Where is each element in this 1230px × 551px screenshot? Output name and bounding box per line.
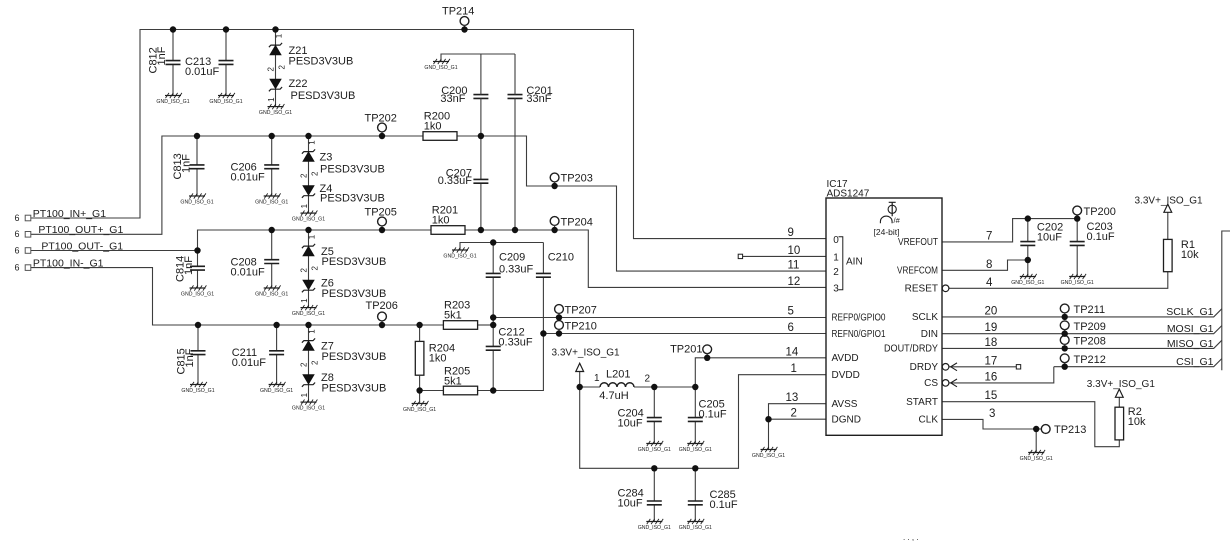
svg-text:PESD3V3UB: PESD3V3UB: [320, 193, 385, 205]
capacitor C284: [618, 488, 662, 510]
svg-text:DIN: DIN: [921, 329, 938, 340]
svg-text:7: 7: [986, 230, 992, 242]
capacitor C202: [1020, 222, 1063, 246]
svg-text:GND_ISO_G1: GND_ISO_G1: [181, 388, 214, 394]
svg-text:GND_ISO_G1: GND_ISO_G1: [679, 447, 712, 453]
svg-text:GND_ISO_G1: GND_ISO_G1: [181, 291, 214, 297]
connector PT100_OUT+_G1: [15, 224, 124, 239]
svg-text:PESD3V3UB: PESD3V3UB: [322, 351, 387, 363]
wire 3.3V rail down to DVDD pin 1: [580, 375, 826, 469]
svg-text:. . , .: . . , .: [903, 533, 919, 542]
test point TP209: [1060, 321, 1106, 334]
svg-text:GND_ISO_G1: GND_ISO_G1: [255, 291, 288, 297]
wire C209/C212 column: [492, 243, 494, 391]
svg-text:SCLK: SCLK: [912, 312, 938, 323]
svg-text:1: 1: [267, 97, 276, 102]
svg-text:AVSS: AVSS: [832, 399, 858, 410]
svg-text:TP201: TP201: [670, 344, 702, 356]
CS bubble: [942, 380, 949, 387]
capacitor C212: [486, 327, 533, 351]
svg-text:GND_ISO_G1: GND_ISO_G1: [638, 525, 671, 531]
resistor R204: [415, 325, 455, 391]
svg-text:Z22: Z22: [289, 78, 308, 90]
svg-text:GND_ISO_G1: GND_ISO_G1: [260, 388, 293, 394]
test point TP214: [442, 6, 474, 30]
svg-text:MOSI_G1: MOSI_G1: [1167, 323, 1214, 335]
wire bus at right edge: [1222, 231, 1230, 370]
svg-text:REFN0/GPIO1: REFN0/GPIO1: [832, 329, 886, 340]
svg-text:CS: CS: [924, 378, 938, 389]
svg-text:GND_ISO_G1: GND_ISO_G1: [403, 407, 436, 413]
svg-text:START: START: [906, 397, 938, 408]
svg-text:4: 4: [986, 277, 993, 289]
svg-text:10uF: 10uF: [618, 417, 643, 429]
connector PT100_IN-_G1: [15, 257, 104, 272]
resistor R200: [423, 111, 457, 141]
svg-text:2: 2: [311, 266, 320, 271]
ground under C213: [209, 93, 242, 105]
svg-text:16: 16: [985, 371, 998, 383]
svg-text:18: 18: [985, 337, 998, 349]
svg-text:1: 1: [833, 252, 839, 263]
wire SCLK pin 20: [942, 309, 1222, 317]
svg-text:3.3V+_ISO_G1: 3.3V+_ISO_G1: [552, 348, 621, 359]
ground under C211: [260, 382, 293, 394]
pin 10 stub square: [738, 254, 742, 258]
wire ground link above C200/C201: [441, 54, 515, 62]
RESET bubble: [942, 285, 949, 292]
svg-text:TP208: TP208: [1074, 336, 1106, 348]
wire L201 net: [580, 372, 696, 388]
ground under C202: [1011, 274, 1044, 286]
svg-text:0.01uF: 0.01uF: [185, 66, 220, 78]
capacitor C209: [486, 252, 534, 278]
wire C203 column: [1076, 219, 1078, 277]
wire VREFOUT pin 7 to C202/C203/TP200: [942, 219, 1077, 242]
ground under C813: [180, 193, 213, 205]
svg-text:2: 2: [791, 408, 797, 420]
svg-text:GND_ISO_G1: GND_ISO_G1: [156, 99, 189, 105]
svg-text:0.33uF: 0.33uF: [499, 264, 534, 276]
svg-text:1k0: 1k0: [424, 120, 442, 132]
capacitor C210: [536, 252, 574, 278]
ground under C206: [255, 193, 288, 205]
svg-text:1: 1: [308, 329, 317, 334]
svg-text:TP207: TP207: [565, 305, 597, 317]
svg-text:PESD3V3UB: PESD3V3UB: [322, 256, 387, 268]
wire START pin 15 to R2: [942, 397, 1119, 446]
wire CLK pin 3 to TP213: [942, 419, 1042, 452]
svg-text:1: 1: [594, 373, 600, 384]
power symbol 3.3V+ at R1: [1135, 195, 1204, 212]
svg-text:AIN: AIN: [846, 257, 863, 268]
wire net PT100_IN- / row4 to R203: [31, 268, 443, 325]
svg-text:20: 20: [985, 305, 998, 317]
resistor R1: [1164, 239, 1200, 272]
svg-text:GND_ISO_G1: GND_ISO_G1: [443, 253, 476, 259]
capacitor C200: [440, 54, 488, 136]
wire DOUT/DRDY pin 18 (MISO): [942, 340, 1222, 348]
op-amp/ADC IC17 ADS1247 body: [826, 179, 942, 436]
svg-text:0.33uF: 0.33uF: [438, 175, 473, 187]
svg-text:TP212: TP212: [1074, 354, 1106, 366]
wire CSI net: [1054, 359, 1222, 367]
svg-text:SCLK_G1: SCLK_G1: [1166, 306, 1213, 318]
svg-text:/#: /#: [894, 216, 901, 225]
svg-text:3.3V+_ISO_G1: 3.3V+_ISO_G1: [1087, 379, 1156, 390]
capacitor C815: [176, 325, 206, 385]
svg-text:2: 2: [833, 267, 839, 278]
ground under Z4: [292, 211, 325, 223]
svg-text:0: 0: [833, 235, 839, 246]
svg-text:5k1: 5k1: [444, 309, 462, 321]
svg-text:0.01uF: 0.01uF: [231, 171, 266, 183]
svg-text:TP203: TP203: [561, 173, 593, 185]
zener Z7: [300, 325, 387, 375]
svg-text:PESD3V3UB: PESD3V3UB: [320, 163, 385, 175]
capacitor C213: [185, 30, 234, 96]
wire DIN pin 19 (MOSI): [942, 326, 1222, 334]
svg-text:0.1uF: 0.1uF: [1087, 231, 1115, 243]
svg-text:6: 6: [15, 245, 20, 255]
svg-text:VREFOUT: VREFOUT: [898, 237, 938, 248]
svg-text:TP205: TP205: [365, 207, 397, 219]
wire REFN0 net to pin 6: [543, 333, 826, 335]
ground under Z22: [259, 104, 292, 116]
inductor L201: [594, 369, 651, 402]
capacitor C205: [688, 399, 727, 422]
wire R205 bottom net: [420, 334, 544, 391]
svg-text:AVDD: AVDD: [832, 353, 859, 364]
svg-text:REFP0/GPIO0: REFP0/GPIO0: [832, 313, 886, 324]
svg-text:GND_ISO_G1: GND_ISO_G1: [209, 99, 242, 105]
svg-text:TP213: TP213: [1054, 424, 1086, 436]
svg-text:2: 2: [300, 173, 309, 178]
svg-text:3: 3: [833, 283, 839, 294]
svg-text:6: 6: [15, 262, 20, 272]
svg-text:TP202: TP202: [365, 113, 397, 125]
svg-text:PESD3V3UB: PESD3V3UB: [322, 288, 387, 300]
DRDY bubble: [942, 364, 949, 371]
svg-text:2: 2: [300, 362, 309, 367]
wire C205 column: [694, 387, 696, 444]
IC17 left pin names: [832, 235, 886, 425]
svg-text:TP209: TP209: [1074, 321, 1106, 333]
wire net PT100_IN+ / top rail to pin 9 (AIN0): [31, 30, 826, 239]
wire RESET pin 4 to R1: [949, 212, 1168, 288]
svg-text:15: 15: [985, 390, 998, 402]
svg-text:GND_ISO_G1: GND_ISO_G1: [1020, 456, 1053, 462]
capacitor C201: [508, 54, 553, 230]
wire REFP0 net to pin 5: [493, 317, 826, 319]
test point TP211: [1060, 304, 1105, 317]
wire DRDY pin 17 stub: [949, 366, 1016, 368]
svg-text:10: 10: [788, 245, 801, 257]
power symbol 3.3V+ at L201: [552, 348, 621, 372]
svg-text:1: 1: [300, 203, 309, 208]
svg-text:GND_ISO_G1: GND_ISO_G1: [259, 110, 292, 116]
svg-text:PESD3V3UB: PESD3V3UB: [291, 90, 356, 102]
svg-text:DVDD: DVDD: [832, 370, 860, 381]
test point TP202: [365, 113, 397, 137]
resistor R205: [443, 366, 477, 395]
zener Z22: [267, 78, 355, 107]
svg-text:1: 1: [791, 363, 797, 375]
connector PT100_OUT-_G1: [15, 240, 124, 255]
svg-text:1: 1: [308, 140, 317, 145]
svg-text:1nF: 1nF: [181, 154, 193, 173]
svg-text:PESD3V3UB: PESD3V3UB: [289, 56, 354, 68]
connector PT100_IN+_G1: [15, 208, 107, 223]
svg-text:TP210: TP210: [565, 321, 597, 333]
svg-text:1k0: 1k0: [429, 352, 447, 364]
svg-text:TP200: TP200: [1084, 206, 1116, 218]
capacitor C812: [148, 30, 181, 96]
svg-text:DOUT/DRDY: DOUT/DRDY: [884, 344, 938, 355]
svg-text:GND_ISO_G1: GND_ISO_G1: [292, 406, 325, 412]
svg-text:CLK: CLK: [919, 415, 939, 426]
svg-text:9: 9: [788, 227, 794, 239]
svg-text:5k1: 5k1: [444, 375, 462, 387]
ground under Z8: [292, 400, 325, 412]
svg-text:13: 13: [786, 392, 799, 404]
svg-text:2: 2: [267, 67, 276, 72]
capacitor C285: [688, 489, 738, 511]
svg-text:GND_ISO_G1: GND_ISO_G1: [424, 65, 457, 71]
svg-text:1: 1: [300, 392, 309, 397]
svg-text:2: 2: [300, 268, 309, 273]
zener Z4: [300, 183, 385, 213]
svg-text:GND_ISO_G1: GND_ISO_G1: [1061, 280, 1094, 286]
svg-text:GND_ISO_G1: GND_ISO_G1: [638, 447, 671, 453]
svg-text:1nF: 1nF: [156, 46, 168, 65]
resistor R2: [1115, 406, 1146, 440]
svg-text:TP214: TP214: [442, 6, 474, 18]
svg-text:DRDY: DRDY: [910, 362, 939, 373]
svg-text:33nF: 33nF: [440, 93, 465, 105]
zener Z21: [267, 30, 354, 80]
svg-text:PT100_IN-_G1: PT100_IN-_G1: [33, 257, 104, 269]
test point TP201: [670, 344, 712, 358]
resistor R201: [431, 205, 465, 235]
svg-text:GND_ISO_G1: GND_ISO_G1: [679, 525, 712, 531]
svg-text:PT100_IN+_G1: PT100_IN+_G1: [33, 208, 106, 220]
ground under C284: [638, 519, 671, 531]
test point TP212: [1060, 354, 1106, 367]
svg-text:PESD3V3UB: PESD3V3UB: [322, 383, 387, 395]
svg-text:3.3V+_ISO_G1: 3.3V+_ISO_G1: [1135, 195, 1204, 206]
svg-text:4.7uH: 4.7uH: [599, 390, 628, 402]
svg-text:1: 1: [308, 234, 317, 239]
wire AVDD pin 14 with TP201: [695, 358, 826, 387]
svg-text:TP211: TP211: [1074, 304, 1106, 316]
test point TP204: [550, 217, 593, 231]
svg-text:CSI_G1: CSI_G1: [1176, 356, 1214, 368]
wire C284 column: [653, 468, 655, 521]
ADC symbol inside IC17: [874, 202, 901, 237]
svg-text:3: 3: [989, 408, 995, 420]
wire C210 column: [542, 243, 544, 334]
svg-text:PT100_OUT-_G1: PT100_OUT-_G1: [41, 240, 123, 252]
svg-text:1k0: 1k0: [432, 214, 450, 226]
resistor R203: [443, 300, 477, 330]
ground under C203: [1061, 274, 1094, 286]
ground under C812: [156, 93, 189, 105]
capacitor C206: [231, 136, 280, 196]
svg-text:GND_ISO_G1: GND_ISO_G1: [255, 199, 288, 205]
svg-text:ADS1247: ADS1247: [827, 188, 870, 199]
ground under C815: [181, 382, 214, 394]
svg-text:L201: L201: [606, 369, 630, 381]
test point TP208: [1060, 336, 1106, 349]
test point TP206: [366, 300, 398, 325]
ground under Z6: [292, 305, 325, 317]
zener Z8: [300, 372, 386, 402]
svg-text:GND_ISO_G1: GND_ISO_G1: [292, 311, 325, 317]
DRDY stub square: [1016, 365, 1020, 369]
test point TP200: [1073, 206, 1116, 219]
svg-text:2: 2: [278, 65, 287, 70]
svg-text:6: 6: [788, 322, 794, 334]
AIN bracket: [839, 237, 843, 290]
ground under C204: [638, 441, 671, 453]
svg-text:14: 14: [786, 346, 799, 358]
power symbol 3.3V+ at R2: [1087, 379, 1156, 397]
wire R201 output via TP204 to pin 12 (AIN3): [465, 230, 826, 287]
test point TP205: [365, 207, 397, 231]
test point TP210: [555, 321, 597, 334]
wire C202 column: [1027, 219, 1029, 277]
test point TP203: [550, 173, 593, 187]
svg-text:6: 6: [15, 229, 20, 239]
ground under R204: [403, 401, 436, 413]
svg-text:TP206: TP206: [366, 300, 398, 312]
ground under C208: [255, 285, 288, 297]
svg-text:0.33uF: 0.33uF: [498, 337, 533, 349]
capacitor C814: [175, 251, 206, 289]
wire R200 output via TP203 to pin 11 (AIN2): [457, 136, 826, 271]
svg-text:5: 5: [788, 305, 794, 317]
capacitor C207: [438, 136, 489, 230]
capacitor C211: [232, 325, 284, 385]
svg-text:1nF: 1nF: [183, 256, 195, 275]
svg-text:0.01uF: 0.01uF: [232, 357, 267, 369]
svg-text:VREFCOM: VREFCOM: [897, 266, 938, 277]
wire net PT100_OUT+ / row2 to R200: [31, 136, 423, 234]
zener Z6: [300, 278, 386, 308]
wire AVSS pin 13 to ground: [769, 404, 827, 450]
test point TP207: [555, 305, 597, 318]
svg-text:Z3: Z3: [320, 151, 333, 163]
svg-text:17: 17: [985, 355, 998, 367]
svg-text:GND_ISO_G1: GND_ISO_G1: [752, 453, 785, 459]
svg-text:GND_ISO_G1: GND_ISO_G1: [292, 217, 325, 223]
ground under C814: [181, 285, 214, 297]
svg-text:C209: C209: [499, 252, 525, 264]
IC17 right pin names: [884, 237, 938, 426]
wire C204 column: [653, 387, 655, 444]
svg-text:33nF: 33nF: [526, 93, 551, 105]
svg-text:1: 1: [275, 33, 284, 38]
capacitor C204: [618, 408, 662, 430]
svg-text:11: 11: [788, 260, 800, 272]
capacitor C208: [231, 230, 280, 288]
svg-text:10uF: 10uF: [618, 497, 643, 509]
DRDY input arrow: [951, 363, 957, 371]
wire R203 right to C212 node: [478, 324, 494, 326]
CS input arrow: [951, 379, 957, 387]
wire CS pin 16: [949, 367, 1054, 383]
svg-text:0.1uF: 0.1uF: [699, 408, 727, 420]
svg-text:2: 2: [645, 374, 651, 385]
svg-text:1nF: 1nF: [184, 348, 196, 367]
wire VREFCOM pin 8: [942, 260, 1028, 270]
svg-text:GND_ISO_G1: GND_ISO_G1: [180, 199, 213, 205]
ground under AVSS/DGND: [752, 447, 785, 459]
zener Z3: [300, 136, 385, 186]
svg-text:2: 2: [311, 360, 320, 365]
ground above C209: [443, 247, 476, 259]
svg-text:RESET: RESET: [905, 284, 938, 295]
svg-text:TP204: TP204: [561, 217, 593, 229]
svg-text:[24-bit]: [24-bit]: [874, 227, 900, 237]
wire DGND pin 2: [769, 418, 827, 420]
wire pin 10 stub: [743, 255, 826, 257]
svg-text:19: 19: [985, 322, 998, 334]
zener Z5: [300, 230, 387, 280]
test point TP213: [1041, 424, 1086, 436]
ground under C205: [679, 441, 712, 453]
svg-text:10uF: 10uF: [1037, 231, 1062, 243]
svg-text:MISO_G1: MISO_G1: [1167, 338, 1214, 350]
svg-text:6: 6: [15, 213, 20, 223]
svg-text:2: 2: [311, 171, 320, 176]
svg-text:0.01uF: 0.01uF: [231, 266, 266, 278]
ground under C285: [679, 519, 712, 531]
capacitor C813: [172, 136, 205, 196]
svg-text:12: 12: [788, 276, 801, 288]
svg-text:0.1uF: 0.1uF: [710, 499, 738, 511]
ground above C200: [424, 59, 457, 71]
ground under TP213: [1020, 450, 1053, 462]
svg-text:10k: 10k: [1128, 416, 1146, 428]
wire ground link above C209/C210: [460, 243, 543, 251]
svg-text:DGND: DGND: [832, 414, 861, 425]
svg-text:PT100_OUT+_G1: PT100_OUT+_G1: [38, 224, 123, 236]
svg-text:C210: C210: [548, 252, 574, 264]
svg-text:8: 8: [986, 259, 992, 271]
wire C285 column: [694, 468, 696, 521]
svg-text:10k: 10k: [1181, 249, 1199, 261]
capacitor C203: [1070, 221, 1115, 245]
wire net PT100_OUT- / row3 to R201: [31, 230, 431, 251]
svg-text:GND_ISO_G1: GND_ISO_G1: [1011, 280, 1044, 286]
svg-text:1: 1: [300, 298, 309, 303]
